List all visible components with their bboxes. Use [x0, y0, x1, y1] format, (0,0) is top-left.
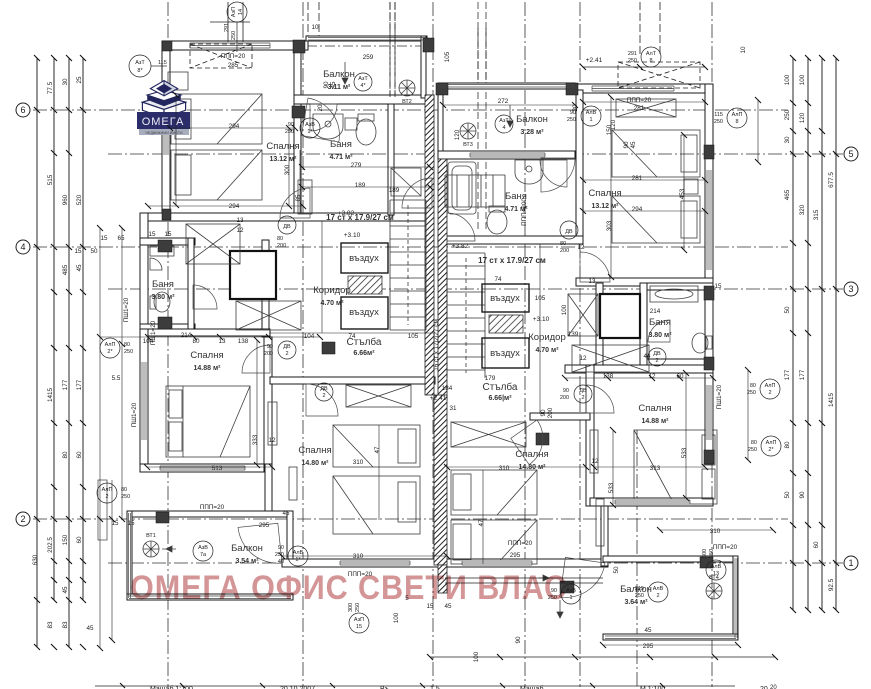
svg-text:65: 65	[117, 235, 125, 242]
axis line 3	[108, 288, 843, 290]
top roof dashed left	[190, 44, 252, 68]
bed1 13.12R	[612, 130, 700, 177]
svg-text:Балкон: Балкон	[231, 543, 263, 554]
svg-text:4.71 м²: 4.71 м²	[329, 154, 353, 161]
svg-text:ППП=20: ППП=20	[627, 97, 652, 104]
svg-text:31: 31	[449, 405, 457, 412]
svg-text:90: 90	[267, 344, 273, 350]
bottom cut text row	[150, 685, 777, 689]
stair flight right	[447, 253, 485, 370]
tag АзТ 4* balconyL	[354, 73, 372, 91]
svg-text:960: 960	[62, 194, 69, 205]
bed1 13.12L	[171, 94, 262, 144]
svg-text:77.5: 77.5	[47, 81, 54, 94]
door arc bedroom 14.80R	[511, 420, 556, 465]
svg-text:310: 310	[353, 459, 364, 466]
wall block balcony 3.28R left	[436, 83, 448, 95]
svg-text:АзП: АзП	[231, 7, 237, 17]
svg-text:250: 250	[714, 119, 723, 125]
svg-text:АлП: АлП	[766, 440, 777, 446]
divider closet R	[596, 283, 603, 373]
svg-text:въздух: въздух	[349, 307, 379, 318]
svg-text:80: 80	[124, 342, 130, 348]
svg-text:Спалня: Спалня	[515, 449, 548, 460]
svg-text:315: 315	[813, 209, 820, 220]
svg-text:179: 179	[485, 375, 496, 382]
svg-text:АзТ: АзТ	[499, 118, 509, 124]
svg-text:14.88 м²: 14.88 м²	[194, 365, 222, 372]
svg-text:310: 310	[499, 465, 510, 472]
bath 3.80R top wall	[640, 283, 713, 290]
svg-text:12: 12	[268, 437, 276, 444]
ticks bathL	[299, 164, 433, 190]
svg-text:250: 250	[285, 129, 294, 135]
svg-text:214: 214	[181, 332, 192, 339]
svg-text:8: 8	[649, 58, 652, 64]
tag ДВ 2 bath R	[648, 348, 666, 366]
svg-text:12: 12	[577, 244, 585, 251]
svg-text:80: 80	[751, 440, 757, 446]
svg-text:15: 15	[356, 624, 362, 630]
svg-text:250: 250	[121, 494, 130, 500]
svg-text:Баня: Баня	[152, 279, 174, 290]
bottom dim line long	[430, 656, 775, 658]
svg-text:8*: 8*	[137, 68, 143, 74]
svg-text:104: 104	[304, 333, 315, 340]
svg-text:60: 60	[813, 541, 820, 549]
svg-text:30: 30	[784, 136, 791, 144]
svg-text:1415: 1415	[828, 393, 835, 408]
svg-text:АлП: АлП	[105, 342, 116, 348]
window top wall L	[190, 42, 270, 49]
svg-text:14.80 м²: 14.80 м²	[302, 460, 330, 467]
left dimension line 4	[82, 58, 84, 600]
svg-text:2: 2	[655, 358, 658, 364]
svg-text:ППП=200: ППП=200	[521, 198, 528, 226]
vertical axis F right balcony	[636, 430, 638, 687]
svg-text:2: 2	[20, 514, 25, 524]
svg-text:3.28 м²: 3.28 м²	[520, 129, 544, 136]
mid-left outer wall	[140, 213, 148, 337]
bed 14.88R double	[634, 430, 717, 504]
svg-text:100: 100	[561, 304, 568, 315]
svg-text:189: 189	[389, 187, 400, 194]
door arc bedroom 14.80L	[306, 384, 338, 416]
axis bubble 1	[844, 556, 858, 570]
svg-text:1: 1	[848, 558, 853, 568]
door arc bedroom 14.88L	[242, 345, 270, 373]
svg-text:ПШ1=20: ПШ1=20	[150, 320, 157, 345]
chain vert left inner x122	[121, 228, 123, 520]
svg-text:ОМЕГА: ОМЕГА	[142, 116, 185, 128]
svg-text:3: 3	[848, 284, 853, 294]
svg-text:80: 80	[62, 451, 69, 459]
svg-text:НЕДВИЖИМИ ИМОТИ: НЕДВИЖИМИ ИМОТИ	[145, 131, 183, 135]
svg-text:20: 20	[770, 685, 777, 689]
left stack bottom extension	[36, 600, 38, 647]
window right wall R up	[706, 170, 712, 270]
chain vert left inner x112	[111, 480, 113, 640]
svg-text:АзТ: АзТ	[358, 76, 368, 82]
svg-text:14.88 м²: 14.88 м²	[642, 418, 670, 425]
window 14.88L balcony door wall	[160, 465, 245, 471]
svg-text:200: 200	[560, 395, 569, 401]
svg-text:45: 45	[630, 141, 637, 149]
svg-text:189: 189	[355, 182, 366, 189]
tag АлТ 13 bottom right	[702, 549, 726, 580]
svg-text:300: 300	[284, 164, 291, 175]
wardrobe X bath R side	[568, 294, 598, 336]
svg-text:Баня: Баня	[649, 317, 671, 328]
svg-text:ОМЕГА ОФИС СВЕТИ ВЛАС: ОМЕГА ОФИС СВЕТИ ВЛАС	[130, 569, 567, 607]
fan ВТ3	[460, 123, 476, 139]
window balcony 3.28 rail	[440, 85, 574, 88]
tag АзВ 1* bedroomL	[285, 118, 320, 138]
chain vert x176 bedroomL	[175, 95, 177, 205]
balcony 3.28R bottom wall	[438, 151, 575, 159]
svg-text:2*: 2*	[768, 447, 774, 453]
svg-text:115: 115	[714, 112, 723, 118]
chain bathL y187	[302, 186, 430, 188]
svg-text:630: 630	[32, 554, 39, 565]
left bath top wall under balcony	[294, 95, 434, 104]
tag АзП 14 top	[224, 2, 247, 52]
core hatched band bottom stub	[438, 565, 447, 593]
svg-text:Стълба: Стълба	[483, 381, 518, 393]
arrow ВТ3	[507, 105, 513, 127]
door arc bath 3.80L	[193, 285, 217, 309]
svg-text:8: 8	[735, 119, 738, 125]
toilet bath 4.71L	[356, 119, 376, 145]
window bottom wall L	[340, 560, 410, 566]
wall block left wall bottom	[162, 209, 171, 220]
svg-text:60: 60	[76, 536, 83, 544]
left unit left wall	[162, 41, 170, 220]
axis line 5	[108, 153, 843, 155]
svg-text:15: 15	[100, 235, 108, 242]
vertical axis A	[167, 2, 169, 687]
wardrobe X 14.80L	[346, 385, 411, 407]
svg-text:20: 20	[317, 104, 324, 112]
svg-text:90: 90	[799, 491, 806, 499]
svg-text:90: 90	[323, 81, 330, 89]
svg-text:291: 291	[224, 23, 230, 32]
bed1 14.80R	[451, 470, 537, 515]
logo subbar	[139, 129, 189, 135]
chain bedroomR y180	[583, 179, 705, 181]
svg-text:83: 83	[62, 621, 69, 629]
shaft hatch step R	[489, 315, 523, 333]
svg-text:13.12 м²: 13.12 м²	[592, 203, 620, 210]
svg-text:279: 279	[351, 162, 362, 169]
svg-text:120: 120	[454, 129, 461, 140]
tag АзВ 1 balconyR	[548, 584, 581, 604]
chain midR y375	[565, 377, 713, 379]
svg-text:АлВ: АлВ	[653, 586, 664, 592]
svg-text:295: 295	[510, 552, 521, 559]
svg-text:12: 12	[579, 355, 587, 362]
divider 14.88L/14.80L	[264, 337, 272, 471]
air shaft R2	[482, 338, 529, 368]
svg-text:138: 138	[238, 338, 249, 345]
svg-text:44: 44	[643, 353, 651, 360]
svg-text:Мащаб: Мащаб	[520, 685, 543, 689]
svg-text:45: 45	[282, 510, 290, 517]
svg-text:ДВ: ДВ	[565, 229, 573, 235]
svg-text:47: 47	[478, 519, 485, 527]
bath 4.71R bottom wall	[438, 236, 583, 244]
chain 14.80R y467	[447, 466, 586, 468]
svg-text:90: 90	[563, 388, 569, 394]
svg-text:333: 333	[252, 434, 259, 445]
svg-text:2: 2	[581, 395, 584, 401]
svg-text:15: 15	[111, 520, 119, 527]
svg-text:ПШ1=20: ПШ1=20	[716, 384, 723, 409]
wall block balcony 3.28R right	[566, 83, 578, 95]
tag АлП 2 right	[747, 379, 780, 399]
bath 3.80R bottom wall	[640, 359, 713, 366]
chain vert right inner x748	[747, 370, 749, 460]
chain vert x613 14.88R	[612, 430, 614, 505]
tag АзП 15 bottom	[348, 603, 369, 633]
left unit top wall	[162, 41, 308, 50]
svg-text:45: 45	[86, 625, 94, 632]
chain bedroomL y206	[148, 205, 303, 207]
door arc bedroom 14.88R	[586, 385, 614, 413]
svg-text:1*: 1*	[307, 129, 313, 135]
svg-text:214: 214	[650, 308, 661, 315]
wall 14.80L top	[270, 377, 435, 384]
svg-text:АзП: АзП	[354, 617, 364, 623]
svg-text:533: 533	[681, 447, 688, 458]
svg-text:320: 320	[799, 204, 806, 215]
svg-text:40: 40	[278, 559, 284, 565]
wall block corridor R	[536, 433, 549, 445]
svg-text:Баня: Баня	[330, 139, 352, 150]
top dim chain right	[478, 2, 660, 83]
toilet bath 3.80R	[692, 333, 708, 353]
chain vert x684 bedroomR	[683, 135, 685, 250]
vertical axis D	[711, 2, 713, 687]
svg-text:Спалня: Спалня	[638, 403, 671, 414]
divider bath/bedroom R	[576, 90, 583, 242]
core hatched band left	[425, 95, 434, 395]
svg-text:7а: 7а	[200, 552, 207, 558]
svg-text:74: 74	[494, 276, 502, 283]
chain vert x320 corridorL	[321, 221, 323, 333]
svg-text:520: 520	[76, 194, 83, 205]
mid band R wall	[565, 365, 713, 373]
svg-text:15: 15	[74, 248, 82, 255]
svg-text:250: 250	[748, 447, 757, 453]
svg-text:453: 453	[679, 188, 686, 199]
slab edge below right unit	[445, 578, 603, 583]
counter bath 4.71L	[298, 180, 312, 214]
shower bath 4.71R	[448, 162, 476, 214]
svg-text:+2.41: +2.41	[430, 395, 447, 402]
air shaft L1	[341, 243, 388, 273]
left stack numbers	[32, 76, 83, 629]
svg-text:2: 2	[768, 390, 771, 396]
ticks midR	[562, 375, 716, 381]
window 14.88R bottom	[615, 499, 690, 505]
tag ДВ 2 corridor L2	[264, 341, 296, 359]
tv board 14.80L	[268, 402, 277, 445]
svg-text:АлВ: АлВ	[586, 110, 597, 116]
svg-text:АлВ: АлВ	[711, 564, 722, 570]
chain midL y337	[100, 336, 320, 338]
wardrobe X top-left	[186, 224, 240, 264]
door arc balcony 3.64R	[560, 557, 605, 602]
bedroom 14.88L bottom wall	[140, 464, 272, 472]
svg-text:150: 150	[606, 124, 613, 135]
top dim chain center	[308, 2, 395, 97]
right unit outer wall	[705, 84, 713, 464]
svg-text:12: 12	[236, 227, 244, 234]
svg-text:310: 310	[353, 553, 364, 560]
svg-text:АзТ: АзТ	[135, 60, 145, 66]
left unit divider bedroom/bath	[294, 50, 301, 218]
vertical axis E center	[302, 2, 304, 687]
svg-text:10: 10	[740, 46, 747, 54]
svg-text:139: 139	[568, 331, 579, 338]
svg-text:16 ст х 17|2/27 см: 16 ст х 17|2/27 см	[433, 319, 440, 371]
svg-text:АлП: АлП	[765, 383, 776, 389]
svg-text:АлП: АлП	[102, 487, 113, 493]
balcony 3.28R left rail	[438, 83, 443, 159]
wall above balcony 3.64R	[601, 506, 608, 566]
left dimension line 3	[68, 58, 70, 600]
svg-text:въздух: въздух	[490, 348, 520, 359]
wardrobe X 13.12R top	[616, 99, 676, 117]
svg-text:4.70 м²: 4.70 м²	[535, 347, 559, 354]
svg-text:АлВ: АлВ	[293, 550, 304, 556]
svg-text:Мащаб 1:100: Мащаб 1:100	[150, 685, 193, 689]
svg-text:Спалня: Спалня	[588, 188, 621, 199]
stair flight right rails	[447, 253, 485, 378]
top roof X left	[190, 44, 252, 68]
fan ВТ4	[706, 583, 722, 599]
svg-text:Спалня: Спалня	[298, 445, 331, 456]
left dimension line 2	[53, 58, 55, 600]
svg-text:ДВ: ДВ	[653, 351, 661, 357]
ticks 14.88L	[144, 464, 275, 470]
chain vert x540 corridorR	[539, 244, 541, 414]
svg-text:АзВ: АзВ	[198, 545, 208, 551]
svg-text:300: 300	[702, 549, 708, 558]
svg-text:ДВ: ДВ	[283, 344, 291, 350]
top roof dashed right	[618, 62, 700, 88]
dashed pair center right	[477, 2, 479, 232]
logo bar	[137, 112, 190, 129]
fan ВТ2	[399, 80, 415, 96]
svg-text:92.5: 92.5	[828, 578, 835, 591]
svg-text:533: 533	[608, 482, 615, 493]
svg-text:85: 85	[295, 194, 302, 202]
svg-text:3.80 м²: 3.80 м²	[151, 294, 175, 301]
stair flight left	[390, 200, 426, 330]
svg-text:ППП=20: ППП=20	[221, 53, 246, 60]
dashed pair top left	[389, 2, 391, 100]
svg-text:250: 250	[784, 109, 791, 120]
svg-text:90: 90	[623, 141, 630, 149]
svg-text:313: 313	[650, 465, 661, 472]
svg-text:1: 1	[589, 117, 592, 123]
bottom dim ticks	[427, 654, 778, 660]
bath 3.80R left wall	[640, 283, 647, 366]
core hatched band right	[438, 159, 447, 399]
tag АлП 2 left low	[97, 483, 130, 503]
svg-text:АлП: АлП	[732, 112, 743, 118]
svg-text:Коридор: Коридор	[313, 285, 351, 296]
axis line 6	[33, 109, 788, 111]
svg-text:281: 281	[634, 105, 645, 112]
svg-text:4: 4	[502, 125, 505, 131]
bath 3.80L bottom wall	[140, 324, 195, 331]
nightstand 13.12R	[684, 179, 698, 194]
svg-text:100: 100	[799, 74, 806, 85]
svg-text:250: 250	[231, 31, 237, 40]
right stack numbers	[784, 74, 835, 591]
balcony 3.64R top rail	[603, 556, 738, 562]
tv board 14.80R	[590, 430, 598, 473]
chain vert left inner x100	[99, 228, 101, 648]
svg-text:80: 80	[784, 441, 791, 449]
svg-text:2: 2	[656, 593, 659, 599]
balcony 3.54L top rail	[127, 511, 293, 517]
top chain right ticks	[580, 64, 708, 70]
top wall centerline L	[163, 45, 430, 47]
door arc entrance L	[402, 178, 432, 208]
wall block right wall axis5	[704, 145, 714, 159]
svg-text:АлТ: АлТ	[646, 51, 657, 57]
svg-text:310: 310	[710, 528, 721, 535]
chain bathL y167	[302, 166, 430, 168]
closet square R thick	[600, 294, 640, 338]
svg-text:105: 105	[444, 51, 451, 62]
svg-text:294: 294	[229, 123, 240, 130]
svg-text:294: 294	[229, 203, 240, 210]
svg-text:177: 177	[799, 369, 806, 380]
svg-text:въздух: въздух	[490, 293, 520, 304]
axis line 2	[33, 518, 788, 520]
svg-text:ДВ: ДВ	[579, 388, 587, 394]
door arc bath 4.71L	[310, 104, 337, 131]
chain vert x257 14.88L	[256, 340, 258, 465]
svg-text:2: 2	[285, 351, 288, 357]
wall block balcony 3.11 left	[293, 40, 305, 53]
vertical axis B	[432, 2, 434, 687]
chain bathR y105	[443, 104, 575, 106]
svg-text:ВТ2: ВТ2	[402, 99, 412, 105]
svg-text:АзВ: АзВ	[305, 122, 315, 128]
right dimension line 3	[821, 58, 823, 610]
door arc balcony 3.28R	[541, 158, 575, 192]
stair arrow right dashed	[465, 258, 467, 373]
wall block balcony 3.64R left	[700, 557, 713, 568]
right dimension line 2	[807, 58, 809, 610]
balcony 3.54L left rail	[127, 511, 132, 600]
tag АзВ 7а balconyL	[193, 541, 213, 561]
sink bath 3.80L	[150, 258, 162, 270]
svg-text:90: 90	[278, 545, 284, 551]
svg-text:6.66|м²: 6.66|м²	[488, 395, 512, 402]
svg-text:200: 200	[560, 248, 569, 254]
bed2 14.80L	[333, 476, 420, 534]
mid-left band wall	[140, 329, 270, 336]
svg-text:45: 45	[62, 586, 69, 594]
svg-text:ППП=20: ППП=20	[508, 540, 533, 547]
